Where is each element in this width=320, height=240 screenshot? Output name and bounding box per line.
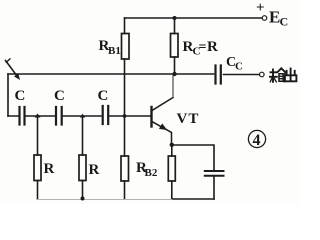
node supply junction [173,16,177,20]
label C3 [98,88,109,104]
svg-text:C: C [15,88,26,104]
wire collector feedback line [8,73,214,75]
label R2 [89,162,100,178]
label VT [177,111,200,127]
node ground junction [81,197,85,201]
capacitor C1 [20,107,25,125]
label RB2 [136,160,158,179]
wire ground rail right [172,198,214,200]
svg-text:B1: B1 [108,45,121,57]
transistor VT [150,107,152,127]
node emitter junction [170,143,174,147]
label figure number 4 [248,130,265,147]
svg-text:R: R [44,161,55,177]
resistor RC [174,18,176,34]
capacitor C3 [103,106,109,124]
capacitor CE bypass [205,171,224,176]
arrow feedback direction [6,61,17,76]
resistor R1 [37,116,39,155]
label shuchu output [270,68,296,82]
wire RC chain rail [8,115,151,117]
svg-text:R: R [207,39,218,55]
node chain junction 2 [80,114,86,118]
wire emitter to bypass capacitor [172,145,214,170]
svg-text:C: C [54,88,65,104]
label Ec [269,8,288,29]
svg-text:R: R [89,162,100,178]
node collector junction [172,72,176,76]
svg-text:4: 4 [253,132,261,149]
label CC [226,55,243,73]
svg-text:B2: B2 [145,167,158,179]
capacitor C2 [56,107,62,125]
node chain junction 1 [35,114,41,118]
capacitor CC [216,66,221,84]
svg-text:VT: VT [177,111,200,127]
label RB1 [99,38,121,57]
label R1 [44,161,55,177]
label RC = R [183,39,219,58]
wire output [224,74,260,76]
wire top supply rail [125,17,263,19]
resistor RB1 [124,18,126,34]
svg-text:=: = [199,40,207,55]
resistor RB2 [124,116,126,156]
label + [256,0,265,16]
svg-text:C: C [280,15,289,29]
wire left feedback drop [7,74,9,116]
terminal output [260,72,265,77]
label C2 [54,88,65,104]
svg-text:C: C [235,61,243,73]
resistor RE [171,145,173,156]
svg-text:+: + [256,0,265,16]
label C1 [15,88,26,104]
wire ground rail left [38,199,172,201]
resistor R2 [82,116,84,155]
terminal +Ec [262,16,267,21]
node base junction [123,114,127,118]
svg-text:C: C [98,88,109,104]
